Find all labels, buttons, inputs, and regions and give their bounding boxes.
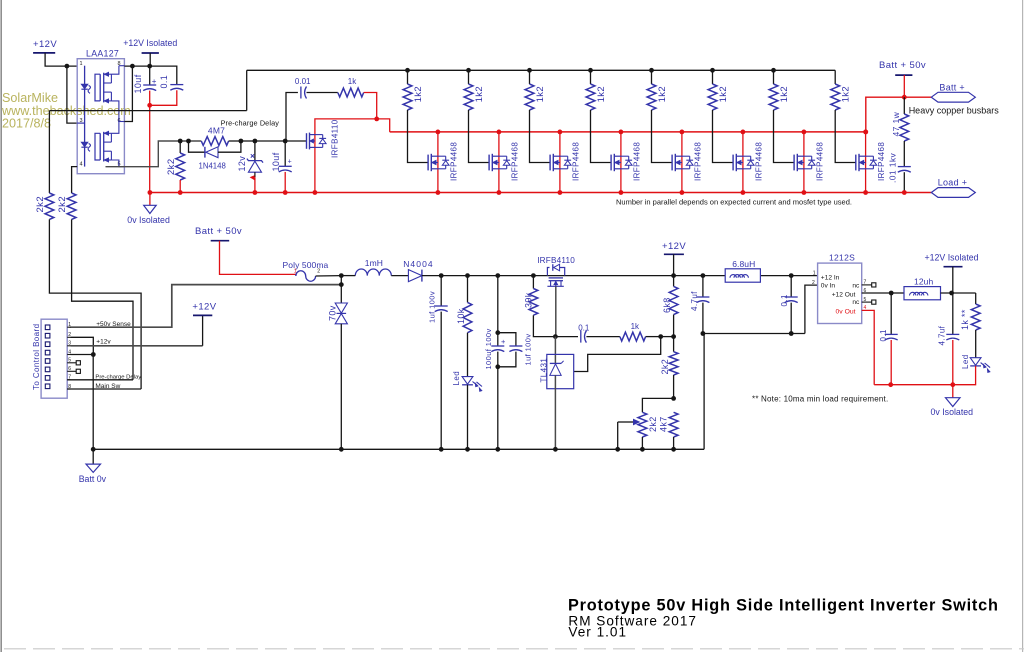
wire drain-source column #5	[681, 132, 683, 193]
svg-text:1k: 1k	[348, 77, 357, 86]
node drain #7	[802, 130, 807, 135]
wire gate lead #6	[713, 110, 734, 163]
node Batt+ junction	[902, 95, 907, 100]
node gate bus tap 6	[710, 68, 715, 73]
wire 1mH to diode	[391, 275, 408, 277]
svg-text:+: +	[152, 77, 157, 86]
wire gate node to 0.1	[555, 336, 578, 338]
wire 1k2 #4 top lead	[590, 70, 592, 84]
svg-text:Pre-charge Delay: Pre-charge Delay	[221, 118, 280, 127]
resistor 1k2 #6	[708, 84, 717, 110]
node trim top	[671, 396, 676, 401]
resistor 1k2 #1	[403, 84, 412, 110]
resistor 1k2 #3	[525, 84, 534, 110]
svg-text:2k2: 2k2	[57, 196, 68, 213]
wire gate lead #2	[469, 110, 490, 163]
svg-text:6.8uH: 6.8uH	[732, 259, 755, 269]
svg-text:Main Sw: Main Sw	[95, 383, 120, 390]
svg-text:Batt +: Batt +	[939, 82, 965, 92]
TVS 70v	[340, 285, 342, 303]
capacitor 0.1 (iso out)	[885, 333, 898, 335]
svg-text:0v Isolated: 0v Isolated	[127, 215, 170, 225]
node 10uf junction	[147, 64, 152, 69]
svg-text:39k: 39k	[524, 292, 534, 308]
wire gate lead #8	[835, 110, 856, 163]
power +12V (control) bar	[193, 314, 212, 316]
svg-text:nc: nc	[852, 283, 860, 290]
svg-text:+12V: +12V	[192, 302, 216, 313]
wire 1k out	[646, 336, 661, 338]
node rail 10k	[465, 273, 470, 278]
svg-text:Led: Led	[452, 371, 461, 386]
wire red precharge drain	[315, 119, 377, 193]
capacitor 100uf 100v	[491, 345, 504, 347]
node pre-charge 2k2	[178, 139, 183, 144]
wire pin8 row	[67, 388, 141, 390]
node rail 39k	[531, 273, 536, 278]
wire 0.1hf top	[790, 276, 792, 297]
resistor 1k (pre-charge)	[338, 88, 364, 97]
node gate bus tap 2	[466, 68, 471, 73]
svg-text:**: **	[960, 309, 970, 317]
svg-text:1k2: 1k2	[474, 86, 485, 103]
svg-text:0v Out: 0v Out	[836, 308, 856, 315]
node trim bottom	[640, 447, 645, 452]
svg-text:.01 1kv: .01 1kv	[888, 152, 898, 183]
svg-text:IRFB4110: IRFB4110	[537, 256, 575, 265]
svg-text:Batt 0v: Batt 0v	[79, 474, 107, 484]
svg-text:1mH: 1mH	[365, 258, 383, 268]
wire staircase to TL431 ref	[574, 337, 661, 372]
wire Batt+ stem	[903, 75, 905, 97]
wire 12uh out	[941, 292, 976, 294]
transistor IRFB4110 (pre-charge)	[306, 133, 308, 149]
wire 1uf100v top	[440, 276, 442, 306]
wire pin1-pin3 tie	[67, 66, 77, 123]
wire 1k2 #6 top lead	[712, 70, 714, 84]
svg-text:70v: 70v	[328, 305, 338, 321]
inductor 1mH	[355, 269, 391, 276]
wire gate lead #3	[530, 110, 551, 163]
wire 0v isolated stem	[149, 193, 151, 206]
wire bulk caps bottom merge	[498, 352, 516, 367]
svg-text:1: 1	[68, 322, 71, 328]
node source #2	[497, 190, 502, 195]
LED power indicator	[462, 377, 473, 385]
opto-relay U1 LAA127 body	[77, 59, 124, 174]
svg-text:IRFP4468: IRFP4468	[754, 142, 763, 181]
node gate cap 10uf	[283, 139, 288, 144]
transistor IRFP4468 #6	[732, 155, 734, 171]
svg-text:** Note: 10ma min load require: ** Note: 10ma min load requirement.	[752, 394, 888, 403]
svg-text:To Control Board: To Control Board	[32, 324, 41, 390]
resistor 1k2 #2	[464, 84, 473, 110]
potentiometer 2k2 trim	[638, 412, 647, 437]
svg-text:1uf 100v: 1uf 100v	[524, 334, 533, 366]
node gate bus tap 3	[527, 68, 532, 73]
wire 2k2a top	[48, 111, 50, 193]
wire precharge row to gate	[285, 140, 306, 142]
LED isolated indicator	[970, 358, 981, 366]
wire top gate bus	[247, 69, 836, 71]
wire 47ohm to cap	[903, 141, 905, 167]
node gate bus tap 5	[649, 68, 654, 73]
node divider	[671, 334, 676, 339]
svg-text:+: +	[501, 337, 506, 346]
svg-text:1k2: 1k2	[535, 86, 546, 103]
resistor 47 1w snubber	[900, 114, 909, 141]
node 4.7uf bottom	[701, 331, 706, 336]
wire 2k2 precharge bottom	[179, 180, 181, 193]
wire red 0.1 bottom	[150, 90, 177, 105]
svg-text:IRFP4468: IRFP4468	[815, 142, 824, 181]
resistor 10k	[463, 302, 472, 332]
svg-text:+12v: +12v	[96, 339, 111, 346]
wire red gate-bus step	[377, 119, 390, 132]
svg-text:1k2: 1k2	[841, 86, 852, 103]
wire 4.7uf iso bottom	[952, 340, 954, 385]
svg-text:0.1: 0.1	[578, 324, 590, 333]
wire pin5 to pre-charge node	[106, 141, 202, 167]
node drain #5	[680, 130, 685, 135]
svg-text:+12 Out: +12 Out	[832, 291, 856, 298]
wire red caps to 0v-iso net	[149, 91, 151, 193]
svg-text:Poly 500ma: Poly 500ma	[283, 260, 329, 270]
connector pin squares	[45, 325, 50, 330]
node 1uf100v bottom	[439, 447, 444, 452]
wire 1k load top	[975, 293, 977, 304]
capacitor 0.1 (reg)	[580, 331, 582, 343]
svg-text:0v Isolated: 0v Isolated	[931, 407, 974, 417]
node sense tie	[339, 282, 344, 287]
svg-text:0.1: 0.1	[780, 294, 789, 306]
wire gate cap lead	[284, 141, 286, 166]
transistor IRFP4468 #1	[427, 155, 429, 171]
svg-text:+12V: +12V	[33, 39, 57, 50]
node snubber-load junction	[902, 190, 907, 195]
right sheet border	[1022, 0, 1024, 652]
capacitor 4.7uf (reg out)	[696, 296, 709, 298]
node gate-cap source tap	[283, 190, 288, 195]
svg-text:1k2: 1k2	[657, 86, 668, 103]
svg-text:Ver 1.01: Ver 1.01	[568, 625, 627, 640]
wire drain-source column #6	[742, 132, 744, 193]
svg-text:2k2: 2k2	[648, 416, 658, 432]
transistor IRFP4468 #2	[488, 155, 490, 171]
svg-text:IRFP4468: IRFP4468	[449, 142, 458, 181]
node drain #3	[558, 130, 563, 135]
svg-text:1: 1	[80, 61, 83, 67]
power +12V (mid rail) bar	[664, 253, 684, 255]
connector To Control Board body	[41, 319, 67, 398]
resistor 2k2 (pre-charge pulldown)	[176, 153, 185, 180]
wire +50v sense	[70, 285, 342, 328]
wire 4.7uf bottom	[702, 303, 704, 334]
resistor 2k2 (pre-charge input)	[67, 193, 76, 219]
dcdc pin7 stub	[862, 284, 872, 286]
wire 0v mid rail	[703, 333, 805, 335]
node TL431 anode	[553, 447, 558, 452]
node red 0v out b	[950, 382, 955, 387]
wire 47ohm top lead	[903, 97, 905, 114]
svg-text:0.01: 0.01	[295, 77, 311, 86]
diode IN4004	[408, 270, 422, 282]
node 4k7 bottom	[671, 447, 676, 452]
wire pin6 riser	[124, 66, 132, 121]
svg-text:10uf: 10uf	[271, 152, 281, 171]
wire 1k to led	[975, 330, 977, 358]
inductor 6.8uH coil	[730, 275, 748, 278]
node source #3	[558, 190, 563, 195]
capacitor 10uf (isolated supply)	[143, 84, 156, 86]
connector Batt + flag	[931, 92, 975, 102]
svg-text:Pre-charge Delay: Pre-charge Delay	[95, 375, 141, 381]
transistor IRFP4468 #5	[671, 155, 673, 171]
wire +12V mid stem	[673, 254, 675, 275]
svg-text:0v In: 0v In	[821, 283, 836, 290]
wire 2k2 divider bottom	[673, 375, 675, 398]
wire red batt feed	[220, 241, 297, 275]
wire 1k2 #5 top lead	[651, 70, 653, 84]
wire 0v rail riser to pin2	[805, 285, 818, 333]
node gate bus tap 4	[588, 68, 593, 73]
power Batt + 50v (top) bar	[895, 74, 912, 76]
wire gate lead #4	[591, 110, 612, 163]
node 70v bottom	[339, 447, 344, 452]
node drain bus riser	[863, 130, 868, 135]
svg-text:1: 1	[294, 269, 297, 275]
U1 upper output MOSFET pair	[95, 74, 100, 101]
node red gate-bus corner	[374, 117, 379, 122]
node pins1-3 tie	[65, 64, 70, 69]
svg-text:1uf 100v: 1uf 100v	[427, 291, 436, 323]
transistor IRFP4468 #7	[793, 155, 795, 171]
wire drain-source column #8	[865, 132, 867, 193]
node pin6 riser junction	[130, 64, 135, 69]
node rail 1uf100v	[439, 273, 444, 278]
shunt regulator TL431	[547, 354, 574, 388]
svg-text:2k2: 2k2	[35, 196, 46, 213]
svg-text:1k2: 1k2	[779, 86, 790, 103]
svg-text:N4004: N4004	[403, 259, 434, 269]
node zener source tap	[253, 190, 258, 195]
svg-text:1k2: 1k2	[718, 86, 729, 103]
node rail bulk caps	[495, 273, 500, 278]
svg-text:IRFP4468: IRFP4468	[510, 142, 519, 181]
svg-text:+12 In: +12 In	[821, 274, 840, 281]
wire 0.01 to 1k	[307, 92, 338, 94]
resistor 4k7	[669, 412, 678, 437]
wire tie to divider	[661, 336, 674, 338]
node drain #4	[619, 130, 624, 135]
node 4M7 out	[239, 139, 244, 144]
U1 lower input LED	[81, 142, 87, 146]
node source #8	[863, 190, 868, 195]
capacitor .01 1kv snubber	[898, 166, 911, 168]
wire 1uf100v bottom	[440, 312, 442, 450]
resistor 1k2 #5	[647, 84, 656, 110]
wire pin4 stub	[72, 167, 78, 193]
svg-text:4: 4	[80, 162, 83, 168]
node pin2-4 tie	[91, 352, 96, 357]
svg-text:Prototype 50v High Side Intell: Prototype 50v High Side Intelligent Inve…	[568, 597, 999, 615]
wire gate lead #1	[408, 110, 429, 163]
svg-text:4.7uf: 4.7uf	[938, 325, 947, 345]
node 0v-isolated tap	[148, 190, 153, 195]
svg-text:12uh: 12uh	[914, 277, 933, 287]
power Batt + 50v (mid) bar	[211, 240, 230, 242]
node batt 0v corner	[91, 447, 96, 452]
node zener 12v	[253, 139, 258, 144]
wire gate bus riser	[246, 70, 248, 110]
svg-text:1k2: 1k2	[413, 86, 424, 103]
svg-text:2017/8/8: 2017/8/8	[2, 116, 51, 130]
wire bulk caps down	[497, 352, 499, 450]
node +12 out junction	[889, 291, 894, 296]
wire led iso bottom	[953, 366, 976, 385]
node wiper bottom	[615, 447, 620, 452]
wire +12V Isolated stem	[149, 53, 151, 66]
wire bottom 0v bus	[93, 448, 704, 450]
svg-text:1k: 1k	[960, 320, 970, 330]
node batt-sense junction	[339, 273, 344, 278]
transistor IRFP4468 #8	[855, 155, 857, 171]
node source #5	[680, 190, 685, 195]
resistor 4M7	[201, 137, 228, 146]
node precharge-fet source tap	[313, 190, 318, 195]
wire trim wiper	[618, 421, 634, 423]
fuse Poly 500ma	[296, 271, 316, 282]
wire snubber bottom	[903, 172, 905, 192]
wire bulk caps top	[497, 276, 499, 346]
wire +12 raw rail	[422, 275, 725, 277]
wire control 0v column	[92, 355, 94, 450]
svg-text:0.1: 0.1	[879, 329, 888, 341]
svg-text:+12V Isolated: +12V Isolated	[925, 253, 979, 263]
svg-text:IRFB4110: IRFB4110	[330, 119, 339, 158]
wire +12V stem	[45, 53, 77, 66]
node gate bus tap 1	[405, 68, 410, 73]
svg-text:nc: nc	[852, 299, 860, 306]
resistor 2k2 (divider)	[669, 352, 678, 375]
wire drain-source column #7	[803, 132, 805, 193]
U1 upper input LED	[84, 66, 86, 167]
resistor 2k2 (main sw pulldown)	[45, 193, 54, 219]
inductor 12uh box	[904, 287, 941, 300]
wire pin4 link	[71, 354, 94, 356]
wire red 1k to gate-bus corner	[364, 93, 377, 119]
svg-text:TL431: TL431	[539, 358, 548, 383]
wire TL431 cathode	[554, 337, 556, 363]
resistor 6k8	[669, 286, 678, 314]
U1 pin3 internal stub	[77, 122, 84, 124]
ground 0v Isolated (top)	[144, 205, 157, 213]
wire pin3 +12v	[71, 345, 203, 347]
svg-text:Number in parallel depends on: Number in parallel depends on expected c…	[616, 197, 852, 206]
node red caps junction	[147, 103, 152, 108]
node drain #2	[497, 130, 502, 135]
dcdc 1212S body	[818, 263, 862, 323]
svg-text:2: 2	[317, 269, 320, 275]
wire drain-source column #4	[620, 132, 622, 193]
nc pin6	[71, 370, 77, 372]
svg-text:1: 1	[813, 271, 816, 277]
svg-text:Heavy copper busbars: Heavy copper busbars	[909, 106, 1000, 116]
ground Batt 0v	[86, 464, 101, 472]
wire out to 12uh	[891, 292, 904, 294]
wire 0v iso right stem	[952, 385, 954, 398]
wire +12V iso right stem	[952, 267, 954, 293]
wire 39k top	[532, 276, 534, 289]
transistor IRFP4468 #3	[549, 155, 551, 171]
svg-text:IRFP4468: IRFP4468	[877, 142, 886, 181]
wire pin2 link	[71, 337, 94, 354]
wire 10k top	[467, 276, 469, 303]
wire trim top branch	[642, 398, 673, 412]
wire 4.7uf top	[702, 276, 704, 297]
svg-text:0.1: 0.1	[159, 75, 169, 89]
svg-text:6k8: 6k8	[662, 297, 672, 313]
capacitor 0.1 (dcdc in)	[785, 296, 798, 298]
wire 1k2 #7 top lead	[773, 70, 775, 84]
wire 4k7 bottom	[673, 437, 675, 449]
svg-text:IRFP4468: IRFP4468	[571, 142, 580, 181]
svg-text:10k: 10k	[456, 308, 466, 324]
wire drain-source column #2	[498, 132, 500, 193]
wire 1k2 #2 top lead	[468, 70, 470, 84]
svg-text:1k2: 1k2	[596, 86, 607, 103]
wire batt node to 1mH	[341, 275, 355, 277]
node red 0v out a	[888, 382, 893, 387]
wire 0.1 to 1k	[586, 336, 620, 338]
transistor IRFB4110 (linear reg)	[547, 268, 549, 276]
wire +12V mid-left stem	[202, 315, 204, 345]
wire gate cap to 0v	[284, 172, 286, 193]
wire fuse out	[316, 275, 342, 277]
wire 6k8 top	[673, 276, 675, 287]
capacitor 4.7uf (iso out)	[946, 333, 959, 335]
wire 2k2 precharge top	[179, 141, 181, 153]
svg-text:2k2: 2k2	[166, 158, 177, 175]
connector Load + flag	[931, 188, 975, 198]
resistor 1k2 #4	[586, 84, 595, 110]
wire gate lead #5	[652, 110, 673, 163]
svg-text:IRFP4468: IRFP4468	[693, 142, 702, 181]
node drain #8	[863, 130, 868, 135]
wire precharge row to zener	[241, 140, 255, 142]
wire pin8 top rail	[124, 66, 176, 85]
svg-text:1N4148: 1N4148	[199, 161, 226, 170]
node 1k out	[658, 334, 663, 339]
svg-text:+: +	[288, 159, 292, 166]
wire pin7 row	[67, 379, 133, 381]
wire 1k2 #3 top lead	[529, 70, 531, 84]
svg-text:+12V Isolated: +12V Isolated	[123, 38, 177, 48]
wire red drain bus	[390, 131, 866, 133]
node pre-charge diode tap	[186, 139, 191, 144]
node bulk caps merge	[495, 364, 500, 369]
node drain #6	[741, 130, 746, 135]
svg-text:Batt + 50v: Batt + 50v	[879, 60, 926, 71]
resistor 1k2 #8	[831, 84, 840, 110]
node source #4	[619, 190, 624, 195]
node rail 4.7uf	[701, 273, 706, 278]
svg-text:Led: Led	[961, 354, 970, 369]
wire 0.1 iso top	[890, 293, 892, 334]
svg-text:4M7: 4M7	[208, 125, 225, 135]
node rail +12V tap	[671, 273, 676, 278]
capacitor 1uf 100v (b)	[509, 345, 522, 347]
